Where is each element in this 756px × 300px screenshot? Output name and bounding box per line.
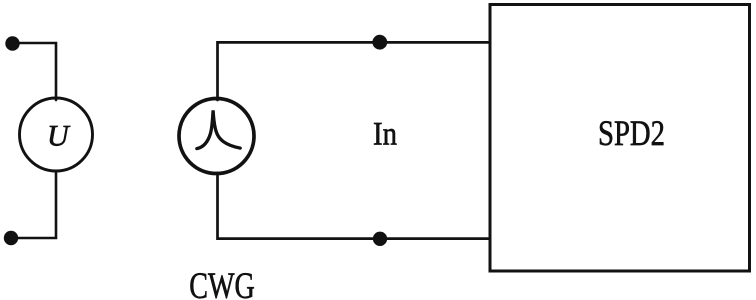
- wire: CWG top lead to SPD2 input: [218, 42, 491, 100]
- wire: top-left terminal to voltage source: [13, 43, 57, 100]
- surge generator CWG: [179, 99, 254, 174]
- wire: CWG bottom lead to SPD2 return: [218, 173, 491, 239]
- SPD2 box: [490, 5, 750, 272]
- wire: voltage source to bottom-left terminal: [11, 171, 56, 238]
- svg-text:In: In: [373, 116, 397, 152]
- voltage source U: [20, 98, 93, 171]
- node: left bottom terminal dot: [4, 231, 18, 245]
- node: left top terminal dot: [5, 36, 19, 50]
- svg-text:U: U: [47, 120, 71, 153]
- surge impulse waveform symbol: [197, 110, 240, 148]
- junction: bottom node dot: [373, 232, 387, 246]
- junction: top node dot: [372, 35, 387, 50]
- svg-text:SPD2: SPD2: [598, 113, 665, 153]
- svg-text:CWG: CWG: [189, 266, 255, 300]
